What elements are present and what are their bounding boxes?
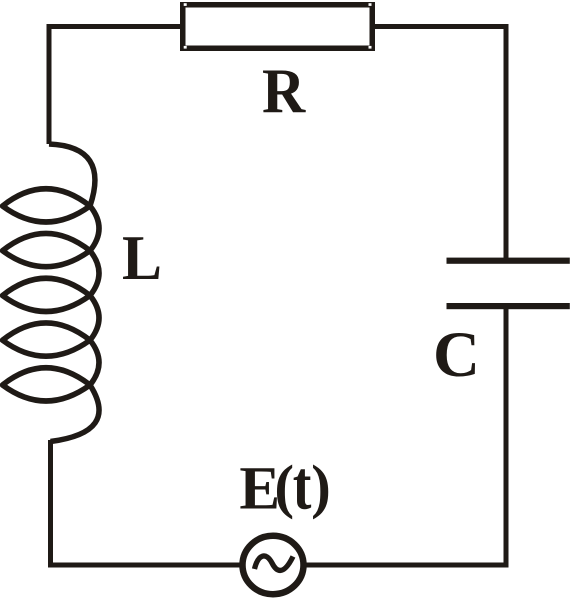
- svg-text:R: R: [262, 56, 306, 126]
- svg-text:L: L: [122, 223, 162, 293]
- svg-text:t: t: [293, 447, 312, 524]
- svg-text:C: C: [433, 319, 480, 391]
- svg-text:): ): [311, 453, 331, 520]
- svg-text:(: (: [274, 453, 294, 520]
